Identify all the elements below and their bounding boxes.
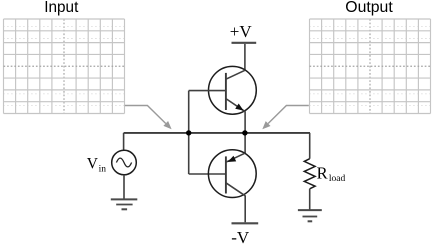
svg-text:-V: -V <box>231 228 250 245</box>
svg-text:R: R <box>317 163 328 182</box>
svg-text:Output: Output <box>345 0 393 16</box>
svg-text:V: V <box>87 155 99 172</box>
svg-text:in: in <box>99 164 107 174</box>
svg-text:+V: +V <box>230 22 253 41</box>
svg-text:Input: Input <box>44 0 79 16</box>
svg-text:load: load <box>329 174 346 184</box>
